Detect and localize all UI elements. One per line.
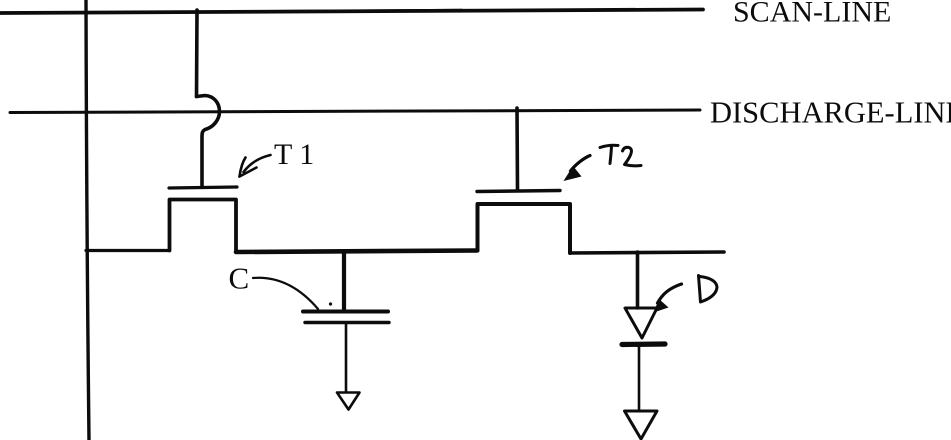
svg-text:T 1: T 1 bbox=[274, 138, 314, 171]
svg-text:C: C bbox=[229, 261, 250, 296]
svg-text:DISCHARGE-LINE: DISCHARGE-LINE bbox=[710, 96, 951, 130]
svg-text:SCAN-LINE: SCAN-LINE bbox=[733, 0, 891, 29]
